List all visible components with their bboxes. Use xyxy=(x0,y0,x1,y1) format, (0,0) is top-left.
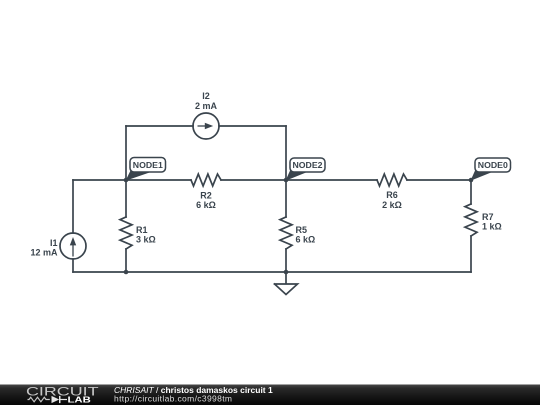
resistor R7 xyxy=(465,204,477,236)
wire R1 bottom lead xyxy=(125,249,127,272)
wire R5 bottom lead xyxy=(285,249,287,272)
wire left vertical (down to I1 top) xyxy=(72,180,74,233)
resistor R6 xyxy=(377,174,407,186)
wire R6 to NODE0 xyxy=(407,179,471,181)
wire top-left horizontal (I2 left lead) xyxy=(126,125,193,127)
current source I1 body xyxy=(60,233,86,259)
wire R7 bottom lead xyxy=(470,236,472,272)
svg-text:NODE0: NODE0 xyxy=(478,161,509,170)
node label NODE2 box xyxy=(290,158,325,172)
wire top-left vertical (down to NODE1) xyxy=(125,126,127,180)
junction dot R1 bottom xyxy=(124,270,129,275)
node label NODE0 pointer xyxy=(471,170,494,181)
svg-text:R2: R2 xyxy=(200,191,212,201)
svg-text:2 mA: 2 mA xyxy=(195,101,218,111)
wire bottom rail xyxy=(73,271,471,273)
node label NODE1 pointer xyxy=(126,171,150,181)
logo resistor symbol xyxy=(28,397,50,402)
junction dot NODE1 xyxy=(124,178,129,183)
node label NODE1 box xyxy=(130,158,166,173)
resistor R5 xyxy=(280,217,292,249)
footer bar xyxy=(0,385,540,405)
svg-text:NODE2: NODE2 xyxy=(293,161,324,170)
current source I2 body xyxy=(193,113,219,139)
wire I1 bottom lead xyxy=(72,259,74,272)
wire NODE2 down to R5 xyxy=(285,180,287,217)
svg-text:I2: I2 xyxy=(202,91,210,101)
svg-text:LAB: LAB xyxy=(68,396,92,405)
svg-text:6 kΩ: 6 kΩ xyxy=(196,200,216,210)
junction dot NODE0 xyxy=(469,178,474,183)
node label NODE0 box xyxy=(475,158,511,172)
svg-text:I1: I1 xyxy=(50,238,58,248)
node label NODE2 pointer xyxy=(286,170,309,181)
svg-text:1 kΩ: 1 kΩ xyxy=(482,222,502,232)
svg-text:2 kΩ: 2 kΩ xyxy=(382,200,402,210)
wire top-right vertical (down to NODE2) xyxy=(285,126,287,180)
wire left stub (NODE1 to left branch) xyxy=(73,179,126,181)
current source I2 arrow xyxy=(198,123,214,129)
wire NODE1 to R2 xyxy=(126,179,191,181)
wire NODE1 down to R1 xyxy=(125,180,127,217)
wire top-right horizontal (I2 right lead) xyxy=(219,125,286,127)
current source I1 arrow xyxy=(70,237,76,257)
resistor R2 xyxy=(191,174,221,186)
logo diode symbol xyxy=(52,396,68,403)
svg-text:R5: R5 xyxy=(296,225,308,235)
svg-text:NODE1: NODE1 xyxy=(133,161,164,170)
wire R2 to NODE2 xyxy=(221,179,286,181)
svg-text:http://circuitlab.com/c3998tm: http://circuitlab.com/c3998tm xyxy=(114,394,232,404)
wire NODE0 down to R7 xyxy=(470,180,472,204)
junction dot ground xyxy=(284,270,289,275)
resistor R1 xyxy=(120,217,132,249)
svg-text:R6: R6 xyxy=(386,190,398,200)
svg-text:R1: R1 xyxy=(136,225,148,235)
svg-text:R7: R7 xyxy=(482,212,494,222)
ground symbol xyxy=(275,272,298,295)
svg-text:6 kΩ: 6 kΩ xyxy=(296,235,316,245)
junction dot NODE2 xyxy=(284,178,289,183)
wire NODE2 to R6 xyxy=(286,179,377,181)
svg-text:3 kΩ: 3 kΩ xyxy=(136,235,156,245)
svg-text:12 mA: 12 mA xyxy=(30,248,58,258)
